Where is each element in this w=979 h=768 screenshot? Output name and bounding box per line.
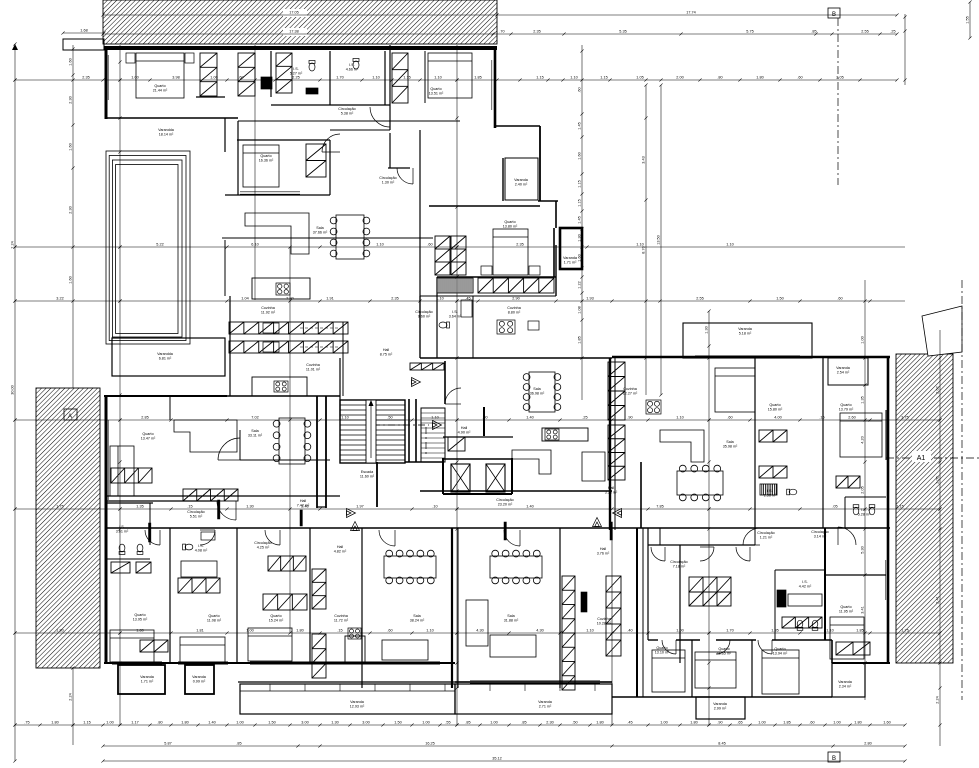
window bottom y688b: [470, 680, 600, 682]
svg-text:1.10: 1.10: [726, 243, 733, 247]
quarto1380 top wall: [429, 205, 540, 207]
svg-text:4.25 m²: 4.25 m²: [257, 546, 270, 550]
is361 wardrobes: [111, 562, 130, 573]
mid top wall y358 left: [420, 357, 612, 359]
wardrobe right top: [836, 476, 860, 488]
svg-text:2.56 m²: 2.56 m²: [764, 494, 777, 498]
svg-text:.90: .90: [717, 721, 722, 725]
svg-text:3.76 m²: 3.76 m²: [597, 552, 610, 556]
cozinha1101 island: [252, 377, 307, 396]
svg-text:4.30: 4.30: [536, 629, 543, 633]
varanda 12.93 box: [240, 684, 455, 714]
door circ314: [838, 527, 856, 545]
svg-text:.80: .80: [157, 721, 162, 725]
dim line mid y301: [13, 299, 905, 302]
svg-text:Hall: Hall: [383, 348, 390, 352]
quarto1636 right wall: [329, 140, 331, 195]
svg-text:1.00: 1.00: [660, 721, 667, 725]
svg-text:2.05: 2.05: [836, 76, 843, 80]
quarto1380 right wall: [553, 228, 555, 277]
dim grid x642: [644, 83, 647, 395]
svg-text:.15: .15: [337, 629, 342, 633]
svg-text:3.33 m²: 3.33 m²: [605, 491, 618, 495]
svg-text:11.65 m²: 11.65 m²: [717, 652, 732, 656]
svg-text:3.98: 3.98: [172, 76, 179, 80]
dim line left x73 low: [71, 666, 74, 745]
svg-text:4.66 m²: 4.66 m²: [346, 68, 359, 72]
bott bed 1108: [180, 637, 225, 662]
svg-text:36.98 m²: 36.98 m²: [530, 392, 545, 396]
svg-text:.90: .90: [627, 416, 632, 420]
table sala3598: [677, 465, 723, 501]
svg-text:2.35: 2.35: [82, 76, 89, 80]
svg-text:Circulação: Circulação: [338, 107, 355, 111]
cozinha counter strip2: [608, 425, 625, 480]
bottom wall y663 left: [104, 662, 455, 664]
rw room sep x680: [679, 545, 681, 663]
svg-text:1.80: 1.80: [854, 721, 861, 725]
cozinha880 stove: [497, 320, 515, 334]
is442 tub: [788, 594, 822, 606]
svg-text:Quarto: Quarto: [430, 87, 441, 91]
corridor bottom wall y528: [106, 527, 890, 529]
dim grid x255: [254, 45, 256, 300]
svg-text:2.05: 2.05: [861, 486, 865, 493]
svg-text:Quarto: Quarto: [504, 220, 515, 224]
svg-text:1.30: 1.30: [705, 326, 709, 333]
lobby wall y437: [443, 436, 513, 438]
svg-text:8.70: 8.70: [642, 246, 646, 253]
door leaf 2: [149, 523, 151, 542]
svg-text:4.20: 4.20: [861, 436, 865, 443]
svg-text:1.10: 1.10: [434, 76, 441, 80]
svg-text:.15: .15: [187, 505, 192, 509]
lobby cabinet row: [410, 363, 444, 370]
svg-text:1.35: 1.35: [136, 505, 143, 509]
door sala3188: [504, 530, 520, 546]
sep wall x340: [339, 358, 341, 420]
wall y395 left wing: [104, 395, 227, 397]
svg-text:2.55: 2.55: [696, 297, 703, 301]
room sep x170: [169, 528, 171, 663]
is528 wc pair: [853, 505, 859, 515]
svg-text:35.12: 35.12: [492, 757, 502, 761]
svg-text:1.00: 1.00: [861, 336, 865, 343]
varanda171b box: [118, 665, 165, 694]
svg-text:1.40: 1.40: [208, 721, 215, 725]
svg-text:1.93: 1.93: [586, 297, 593, 301]
is466 wall x385: [384, 51, 386, 105]
svg-text:2.55: 2.55: [861, 30, 868, 34]
svg-text:21.44 m²: 21.44 m²: [153, 89, 168, 93]
svg-text:4.08 m²: 4.08 m²: [195, 549, 208, 553]
svg-text:4.30: 4.30: [476, 629, 483, 633]
top-left notch wall: [63, 39, 104, 50]
wall x225 sala left: [224, 240, 226, 296]
stove right wing: [646, 400, 661, 414]
svg-text:.60: .60: [797, 76, 802, 80]
svg-text:Quarto: Quarto: [208, 614, 219, 618]
corridor upper wall left: [106, 495, 340, 497]
balcony top wall y118: [106, 117, 238, 119]
wardrobe sala3311 row: [183, 489, 238, 501]
svg-text:Varanda: Varanda: [350, 700, 365, 704]
bott wardrobe 1524: [263, 594, 307, 610]
svg-text:8.75 m²: 8.75 m²: [380, 353, 393, 357]
svg-text:Circulação: Circulação: [254, 541, 271, 545]
svg-text:1.60: 1.60: [69, 276, 73, 283]
dim line mid y509: [13, 507, 941, 510]
dash-dot section line x962: [961, 280, 963, 700]
hatch band right: [896, 354, 953, 663]
wall x390 vert: [389, 45, 391, 130]
island mid: [542, 428, 588, 441]
svg-text:17.38: 17.38: [289, 30, 299, 34]
svg-text:Quarto: Quarto: [774, 647, 785, 651]
svg-text:1.75: 1.75: [56, 505, 63, 509]
rw wall y545: [648, 544, 755, 546]
svg-text:Quarto: Quarto: [142, 432, 153, 436]
quarto1636 left wall: [237, 121, 239, 195]
svg-text:38.24 m²: 38.24 m²: [410, 619, 425, 623]
room sep x643b: [642, 528, 644, 697]
room sep x362: [361, 528, 363, 688]
balcony inner wall x225: [224, 118, 226, 152]
svg-text:2.30: 2.30: [546, 721, 553, 725]
window top wall b: [300, 46, 380, 48]
wall y121 corridor: [238, 120, 460, 122]
stair arrow: [370, 404, 372, 458]
svg-text:Quarto: Quarto: [769, 403, 780, 407]
svg-text:2.25: 2.25: [292, 76, 299, 80]
svg-text:1.00: 1.00: [422, 721, 429, 725]
svg-text:30.00: 30.00: [11, 385, 15, 395]
svg-text:1.71 m²: 1.71 m²: [141, 680, 154, 684]
wardrobe q1195 low: [836, 642, 870, 655]
svg-text:1.68: 1.68: [80, 29, 87, 33]
svg-text:1.45: 1.45: [578, 122, 582, 129]
table sala3311: [273, 418, 311, 464]
counter band bottom: [229, 341, 348, 353]
svg-text:Varanda: Varanda: [836, 366, 851, 370]
door sala3824: [379, 530, 395, 546]
varanda099 box: [185, 665, 214, 694]
mid wall y395 long: [106, 395, 340, 397]
svg-text:Cozinha: Cozinha: [597, 617, 611, 621]
entry tri 1: [347, 509, 356, 518]
bott bed 1395: [110, 630, 154, 662]
terrace nested railing: [106, 151, 190, 344]
dim line bottom row3: [101, 759, 906, 762]
svg-text:Sala: Sala: [507, 614, 515, 618]
door leaf 5: [300, 510, 302, 526]
counter right band: [478, 278, 554, 293]
varanda 234 box: [832, 663, 865, 697]
dash-dot section line A1: [886, 457, 979, 459]
svg-text:1.50: 1.50: [776, 297, 783, 301]
notch dim 1.68: [61, 31, 105, 34]
svg-text:.80: .80: [717, 76, 722, 80]
svg-text:1.85: 1.85: [856, 629, 863, 633]
wardrobe is442 low: [782, 617, 822, 628]
svg-text:.50: .50: [572, 721, 577, 725]
top-right corner dim: [968, 0, 971, 39]
wall x825 lower: [824, 528, 826, 640]
dim line mid y247: [13, 245, 905, 248]
svg-text:12.27 m²: 12.27 m²: [623, 392, 638, 396]
svg-text:5.18 m²: 5.18 m²: [739, 332, 752, 336]
svg-text:.40: .40: [627, 629, 632, 633]
wardrobe col q1380b: [451, 236, 466, 275]
svg-text:Quarto: Quarto: [154, 84, 165, 88]
hatch band top: [103, 0, 497, 44]
dim grid x709: [707, 309, 710, 726]
room sep x692: [691, 640, 693, 697]
dim grid x120: [118, 45, 121, 727]
svg-text:1.10: 1.10: [636, 243, 643, 247]
svg-text:1.15: 1.15: [536, 76, 543, 80]
svg-text:8.45: 8.45: [718, 742, 725, 746]
svg-text:Cozinha: Cozinha: [623, 387, 637, 391]
marker B top: [828, 8, 840, 18]
quarto1580 bed: [715, 368, 755, 412]
svg-text:Circulação: Circulação: [670, 560, 687, 564]
hall sep wall x377: [376, 462, 378, 507]
right wall of top wing: [494, 46, 497, 128]
wc is466: [353, 59, 359, 70]
quarto1580 wall x755: [754, 357, 756, 528]
varanda 2.40 window wall: [502, 158, 504, 201]
bedside tables 21.44: [126, 53, 135, 63]
svg-text:Sala: Sala: [533, 387, 541, 391]
svg-text:.75: .75: [24, 721, 29, 725]
svg-text:4.42 m²: 4.42 m²: [799, 585, 812, 589]
bott wardrobe 1108: [178, 578, 220, 593]
svg-text:2.99 m²: 2.99 m²: [714, 707, 727, 711]
svg-text:Cozinha: Cozinha: [507, 306, 521, 310]
svg-text:1.45: 1.45: [578, 216, 582, 223]
svg-text:I.S.: I.S.: [802, 580, 808, 584]
svg-text:2.30: 2.30: [69, 96, 73, 103]
svg-text:Circulação: Circulação: [379, 176, 396, 180]
lobby wall x484: [483, 407, 485, 436]
svg-text:5.22: 5.22: [156, 243, 163, 247]
svg-text:23.20 m²: 23.20 m²: [498, 503, 513, 507]
svg-text:1.71 m²: 1.71 m²: [564, 261, 578, 265]
wall x473: [472, 296, 474, 358]
dim line bottom row2: [101, 744, 906, 747]
dim grid x587: [580, 45, 583, 400]
svg-text:17.05: 17.05: [289, 11, 299, 15]
svg-text:I.S.: I.S.: [293, 67, 299, 71]
svg-text:.50: .50: [387, 416, 392, 420]
dim line mid y633: [13, 631, 941, 634]
svg-text:1.80: 1.80: [56, 629, 63, 633]
svg-text:0.99 m²: 0.99 m²: [193, 680, 206, 684]
stripes radiator: [437, 278, 473, 293]
svg-text:A: A: [68, 414, 72, 420]
door leaf 3: [504, 522, 506, 540]
svg-text:2.80: 2.80: [864, 742, 871, 746]
svg-text:12.93 m²: 12.93 m²: [350, 705, 365, 709]
sofa sala3598: [660, 430, 704, 462]
dashed runs in counters: [300, 327, 338, 329]
stair stringer: [366, 400, 376, 463]
wall x556 seg: [555, 201, 557, 228]
stove counter top: [263, 323, 279, 333]
svg-text:2.60: 2.60: [848, 416, 855, 420]
sofa sala3698b: [512, 450, 551, 474]
quarto1195 bed: [830, 617, 864, 659]
dim grid x905r: [903, 14, 906, 85]
svg-text:2.85: 2.85: [141, 416, 148, 420]
svg-text:1.15: 1.15: [403, 76, 410, 80]
wardrobe q1580 b: [759, 466, 787, 478]
wardrobe circ718: [689, 577, 731, 592]
stair landing walls: [408, 399, 410, 462]
wall x425 q1351: [424, 51, 426, 103]
svg-text:1.85: 1.85: [783, 721, 790, 725]
svg-text:1.10: 1.10: [426, 629, 433, 633]
lobby curved wall: [444, 361, 446, 404]
svg-text:4.82 m²: 4.82 m²: [334, 550, 347, 554]
svg-text:2.05: 2.05: [936, 476, 940, 483]
mid sep x614b: [614, 358, 616, 530]
sala3188 table: [490, 550, 542, 584]
svg-text:.85: .85: [521, 721, 526, 725]
door rw3: [736, 547, 750, 561]
cozinha1028 counters: [562, 576, 575, 690]
room sep x560: [559, 528, 561, 688]
is442 walls: [774, 570, 776, 640]
wardrobe col q1380a: [435, 236, 450, 275]
svg-text:.60: .60: [837, 297, 842, 301]
svg-text:Sala: Sala: [251, 429, 259, 433]
is527 floor wall: [271, 97, 330, 105]
svg-text:Sala: Sala: [316, 226, 324, 230]
wall x170 mid: [169, 396, 171, 420]
quarto1347 bed: [110, 446, 134, 496]
svg-text:2.24: 2.24: [69, 693, 73, 700]
wall y296 right: [473, 295, 556, 297]
room sep x310: [309, 528, 311, 663]
svg-text:Varanda: Varanda: [838, 680, 853, 684]
varanda 2.54 box: [828, 358, 868, 385]
is364 fixtures: [461, 300, 472, 317]
svg-text:I.S.: I.S.: [861, 508, 867, 512]
bott bed 1524: [248, 628, 292, 661]
room wall x275: [270, 51, 272, 97]
wall x420b: [419, 296, 421, 358]
bed quarto 13.80: [493, 229, 528, 275]
door q1108: [200, 530, 215, 545]
cozinha1172 counters: [312, 569, 326, 609]
window left upper: [105, 55, 107, 100]
varanda 2.40 box: [505, 158, 538, 200]
corridor551 top wall: [106, 500, 217, 502]
room sep x237: [236, 528, 238, 663]
svg-text:1.60: 1.60: [883, 721, 890, 725]
svg-text:.25: .25: [582, 416, 587, 420]
svg-text:2.00: 2.00: [676, 76, 683, 80]
window right wing: [885, 415, 887, 455]
svg-text:1.15: 1.15: [83, 721, 90, 725]
quarto1636 top wall: [237, 139, 330, 141]
svg-text:1.00: 1.00: [106, 721, 113, 725]
svg-text:5.27 m²: 5.27 m²: [290, 72, 303, 76]
svg-text:Sala: Sala: [726, 440, 734, 444]
svg-text:Cozinha: Cozinha: [334, 614, 348, 618]
svg-text:1.10: 1.10: [570, 76, 577, 80]
circ538 wall y130: [330, 129, 390, 131]
cozinha880 wall x556: [555, 245, 557, 296]
is408 cistern: [201, 532, 215, 540]
svg-text:5.75: 5.75: [746, 30, 753, 34]
svg-text:Varanda: Varanda: [738, 327, 753, 331]
apartment sep double wall x317: [316, 396, 318, 508]
svg-text:1.40: 1.40: [526, 416, 533, 420]
svg-text:3.61 m²: 3.61 m²: [116, 530, 129, 534]
svg-text:1.91: 1.91: [326, 297, 333, 301]
sala3824 sofa: [382, 640, 428, 660]
svg-text:.55: .55: [445, 721, 450, 725]
svg-text:1.80: 1.80: [690, 721, 697, 725]
door circ121: [743, 528, 760, 545]
wardrobe col q1636: [306, 144, 326, 177]
svg-text:1.30 m²: 1.30 m²: [382, 181, 395, 185]
hall walls near stairs: [239, 430, 241, 460]
svg-text:Varandda: Varandda: [157, 352, 174, 356]
door rw2: [700, 547, 714, 561]
door corr551: [217, 501, 236, 520]
wall y97 under top rooms: [196, 96, 225, 98]
window top wing right: [491, 60, 493, 110]
hatch label backing: [283, 9, 307, 17]
svg-text:1.50: 1.50: [394, 721, 401, 725]
dim grid x865: [863, 280, 866, 700]
svg-text:Varanda: Varanda: [192, 675, 207, 679]
svg-text:1.05: 1.05: [636, 76, 643, 80]
dim line left x73: [71, 45, 74, 388]
svg-text:5.51 m²: 5.51 m²: [190, 515, 203, 519]
counter band top: [229, 322, 348, 334]
svg-text:9.60 m²: 9.60 m²: [418, 315, 431, 319]
svg-text:1.10: 1.10: [676, 416, 683, 420]
svg-text:13.47 m²: 13.47 m²: [141, 437, 156, 441]
svg-text:Hall: Hall: [337, 545, 344, 549]
wall x437: [436, 277, 438, 358]
svg-text:2.54 m²: 2.54 m²: [837, 371, 850, 375]
door leaf 4: [610, 522, 612, 540]
svg-text:Quarto: Quarto: [718, 647, 729, 651]
wardrobe q1351: [392, 53, 408, 103]
svg-text:3.22: 3.22: [56, 297, 63, 301]
svg-text:A1: A1: [917, 455, 926, 462]
svg-text:4.90 m²: 4.90 m²: [458, 431, 472, 435]
wall x343 cozinha: [342, 322, 344, 396]
svg-text:1.50: 1.50: [268, 721, 275, 725]
svg-text:13.10 m²: 13.10 m²: [655, 651, 670, 655]
svg-text:5.35: 5.35: [619, 30, 626, 34]
bott bed 1165: [695, 652, 736, 688]
svg-text:8.80 m²: 8.80 m²: [508, 311, 521, 315]
svg-text:2.71 m²: 2.71 m²: [539, 705, 552, 709]
wall y201 seg: [538, 200, 558, 202]
svg-text:7.18 m²: 7.18 m²: [673, 565, 686, 569]
dashdot route: [373, 425, 429, 457]
svg-text:1.00: 1.00: [246, 629, 253, 633]
svg-text:1.40: 1.40: [526, 505, 533, 509]
